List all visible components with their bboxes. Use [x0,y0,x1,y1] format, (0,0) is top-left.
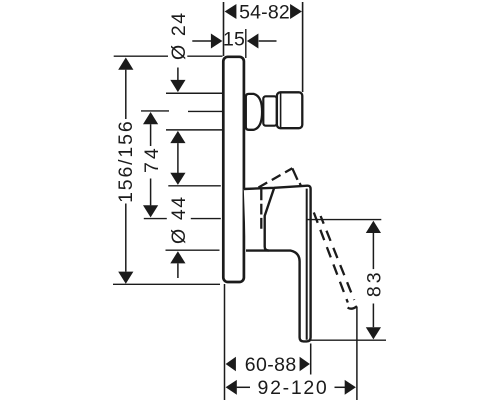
dashed sleeve rotated edge [260,190,262,230]
spout end piece [277,92,302,128]
node pipe centerline y=111 [141,110,169,112]
wire left extension line x=224 top [223,2,225,56]
dashed lever edge fragment at lever top [300,183,301,186]
node cartridge centerline y=218.6 [144,218,167,220]
dashed lever rotated left edge [314,213,348,303]
svg-text:Ø 24: Ø 24 [168,11,190,60]
node plate top reference line y=56 [114,55,168,57]
dashed lever rotated tip [348,306,357,309]
dimension 92-120 arrows [226,380,237,395]
node pipe bottom line y=130 [166,129,222,131]
lever cartridge sleeve [265,188,275,251]
spout ring piece [263,96,277,125]
node plate bottom reference line y=284.3 [113,283,220,285]
wire 60-88 right extension [310,344,312,375]
dimension 54-82 arrows [225,4,237,19]
dimension 74 line and arrows [143,112,158,124]
plate (wall plate, side view) [223,57,244,282]
svg-text:54-82: 54-82 [239,2,290,24]
dashed lever rotated edge upper part [292,168,297,180]
lever inner edge line [306,189,308,340]
dimension 60-88 arrows [226,357,236,372]
svg-text:156/156: 156/156 [115,119,137,202]
dimension 83 line and arrows [366,221,381,233]
dimension 83 extension lines [307,219,382,221]
wire extension line x=245.8 for 15 [245,29,247,58]
wire left extension line x=224.5 bottom [224,284,226,400]
node pipe top line y=93 [166,92,222,94]
dashed lever rotated right edge [321,216,355,300]
svg-text:83: 83 [364,269,386,297]
dimension 156/156 line and arrows [118,58,133,70]
spout end inner edge [280,94,282,128]
svg-text:15: 15 [223,28,245,50]
svg-text:74: 74 [141,145,163,173]
dashed lever rotated top edge [259,168,293,187]
node sleeve top line y=185.8 [168,185,221,187]
svg-text:Ø 44: Ø 44 [168,195,190,244]
node sleeve bottom line y=250.2 [166,249,220,251]
dimension diameter-24 line and arrows [177,68,179,82]
svg-text:92-120: 92-120 [258,377,329,399]
dimension 15 arrows [192,40,211,42]
svg-text:60-88: 60-88 [245,354,297,376]
wire right extension line x=302.6 top [302,2,304,92]
dimension diameter-44 bottom arrow [170,251,185,263]
lever handle outline [244,186,311,342]
wire 92-120 right extension [356,307,358,400]
spout flange piece [246,94,262,130]
